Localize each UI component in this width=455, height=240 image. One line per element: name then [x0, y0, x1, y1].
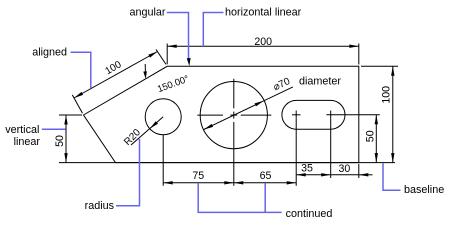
- svg-text:30: 30: [339, 163, 351, 175]
- extension line slot left center: [295, 119, 297, 186]
- hole circle D70: [200, 82, 267, 149]
- slot: [282, 100, 345, 129]
- extension line slot right center: [330, 119, 332, 178]
- dim 75 and 65 line: [163, 182, 296, 184]
- extension line big circle center: [233, 122, 235, 186]
- extension line plate right corner below: [358, 164, 360, 178]
- dim 35 and 30 line: [296, 174, 359, 176]
- label continued leader: [198, 183, 282, 212]
- dim diameter leader line: [204, 87, 293, 130]
- dim 200 extension lines: [166, 44, 168, 65]
- circle D70 centerlines: [197, 114, 223, 116]
- dim diameter text: [272, 76, 293, 93]
- dim 50 left extension line: [59, 114, 82, 116]
- label baseline leader: [383, 163, 401, 190]
- svg-text:linear: linear: [14, 136, 41, 148]
- label aligned leader: [71, 52, 91, 88]
- svg-text:35: 35: [301, 163, 313, 175]
- dim radius leader line: [131, 117, 163, 145]
- svg-text:baseline: baseline: [404, 184, 444, 196]
- label vertical linear leader: [42, 128, 66, 130]
- dim 200 line: [167, 45, 359, 47]
- svg-text:angular: angular: [130, 7, 166, 19]
- label angular leader: [167, 13, 189, 60]
- svg-text:aligned: aligned: [32, 47, 67, 59]
- svg-text:200: 200: [254, 36, 272, 48]
- svg-text:50: 50: [54, 135, 66, 147]
- svg-text:diameter: diameter: [299, 75, 341, 87]
- svg-text:100: 100: [380, 86, 392, 104]
- dim 100 vertical right text: [380, 86, 392, 104]
- dim 30 outside arrow: [359, 174, 373, 176]
- slot right center mark: [330, 111, 332, 119]
- svg-text:50: 50: [364, 130, 376, 142]
- slot left center mark: [292, 114, 301, 116]
- baseline bottom line extended: [59, 162, 395, 164]
- dim 100 aligned line: [74, 52, 158, 99]
- dim 50 right line: [375, 115, 377, 163]
- dim 50 right extension line: [326, 114, 379, 116]
- extension line small circle center: [162, 135, 164, 186]
- dim radius text: [122, 127, 143, 148]
- svg-text:75: 75: [192, 170, 204, 182]
- dim 100 aligned extension lines: [72, 95, 82, 113]
- dim angular outside arrow on slant edge: [144, 64, 146, 72]
- dim angular 150.00 text: [156, 73, 191, 95]
- svg-text:horizontal linear: horizontal linear: [225, 7, 302, 19]
- svg-text:65: 65: [260, 170, 272, 182]
- dim 50 left text: [54, 135, 66, 147]
- label horizontal linear leader: [203, 13, 223, 47]
- dim 50 right text: [364, 130, 376, 142]
- hole circle R20: [145, 99, 181, 135]
- svg-text:vertical: vertical: [5, 124, 39, 136]
- label radius leader: [116, 139, 140, 206]
- dim 100 vertical right line: [392, 66, 394, 162]
- dim 50 left line: [65, 115, 67, 163]
- dim 100 aligned text: [103, 59, 123, 77]
- svg-text:radius: radius: [85, 200, 115, 212]
- plate outline: [84, 66, 359, 162]
- svg-text:continued: continued: [286, 208, 333, 220]
- dim 100 vertical right extension line: [361, 65, 398, 67]
